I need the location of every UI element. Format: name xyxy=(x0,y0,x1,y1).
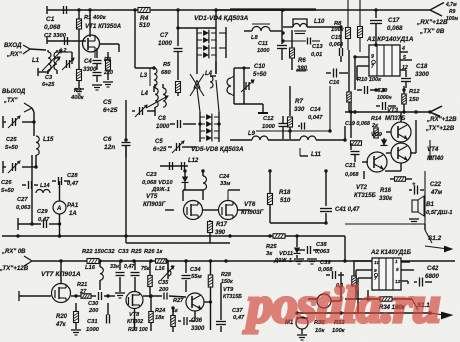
svg-text:postila.ru: postila.ru xyxy=(243,277,440,334)
